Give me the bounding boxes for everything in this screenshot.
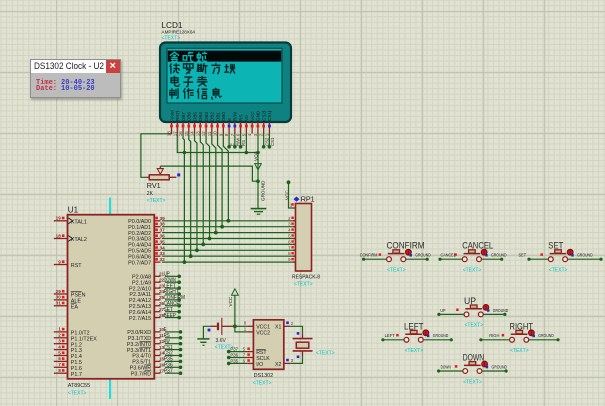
wire/net stub CS1 xyxy=(165,349,180,351)
SET cap xyxy=(550,253,567,255)
LCD screen area xyxy=(167,48,282,103)
svg-text:CS2: CS2 xyxy=(261,112,266,121)
svg-text:15: 15 xyxy=(184,131,189,137)
LEFT actuator xyxy=(423,330,429,336)
svg-text:11: 11 xyxy=(207,131,212,136)
rtc chip DS1302 body xyxy=(253,320,283,370)
svg-text:RP1: RP1 xyxy=(301,195,315,204)
ground symbol (LCD) xyxy=(251,208,267,210)
wire/net stub E xyxy=(165,331,180,333)
svg-text:LEFT: LEFT xyxy=(385,333,395,339)
U1 pin 8 (P1.7) xyxy=(54,372,68,374)
power flag VCC (RP1) xyxy=(287,180,291,184)
svg-text:CS1: CS1 xyxy=(270,137,275,146)
svg-text:2: 2 xyxy=(259,133,264,136)
U1 pin 6 (P1.5) xyxy=(54,360,68,362)
svg-text:<TEXT>: <TEXT> xyxy=(294,282,313,288)
svg-text:VCC: VCC xyxy=(253,151,258,161)
wire LCD DB2 to U1 P0.2 / RP1 xyxy=(212,133,216,233)
svg-text:EA: EA xyxy=(71,304,79,310)
wire LCD E net stub xyxy=(228,133,230,147)
wire/net stub LEFT xyxy=(165,287,179,289)
wire DOWN right to GROUND xyxy=(482,370,506,372)
svg-text:RIGH: RIGH xyxy=(489,333,500,339)
svg-text:CS2: CS2 xyxy=(264,137,269,146)
U1 pin 3 (P1.2) xyxy=(54,343,68,345)
svg-text:UP: UP xyxy=(440,308,445,314)
svg-text:R/W: R/W xyxy=(233,111,238,121)
UP actuator xyxy=(483,305,489,311)
SET actuator xyxy=(567,249,573,255)
wire LCD DB4 to U1 P0.4 / RP1 xyxy=(200,133,203,244)
wire/net stub CS2 xyxy=(165,355,180,357)
U1 pin 30 (ALE) xyxy=(54,299,68,301)
svg-text:SET: SET xyxy=(519,253,527,259)
wire/net stub RW xyxy=(165,343,180,345)
svg-text:<TEXT>: <TEXT> xyxy=(463,268,482,274)
svg-text:13: 13 xyxy=(195,131,200,137)
svg-text:RV1: RV1 xyxy=(147,181,161,190)
svg-text:2: 2 xyxy=(288,216,291,221)
svg-text:<TEXT>: <TEXT> xyxy=(405,348,424,354)
wire LCD DB3 to U1 P0.3 / RP1 xyxy=(206,133,209,239)
U1 pin 18 (XTAL2) xyxy=(54,238,68,240)
CONFIRM actuator xyxy=(406,249,412,255)
RIGHT cap xyxy=(511,333,528,335)
svg-text:RS: RS xyxy=(238,115,243,121)
junction dot DB2/P0.2 xyxy=(214,231,218,235)
U1 pin 19 (XTAL1) xyxy=(54,220,68,222)
wire LCD CS2 net stub xyxy=(263,133,265,147)
svg-text:<TEXT>: <TEXT> xyxy=(510,348,529,354)
svg-text:VCC: VCC xyxy=(250,111,255,121)
svg-text:5: 5 xyxy=(241,133,246,136)
junction dot DB5/P0.5 xyxy=(195,248,199,252)
RP1 pin 2 xyxy=(293,220,296,222)
svg-text:GROUND: GROUND xyxy=(491,253,507,259)
wire U1 P0.0/AD0 to RP1 pin 2 xyxy=(162,220,296,222)
svg-text:4: 4 xyxy=(247,133,252,136)
svg-text:DB0: DB0 xyxy=(221,112,226,121)
junction dot DB1/P0.1 xyxy=(220,225,224,229)
svg-text:DB4: DB4 xyxy=(198,112,203,121)
svg-text:<TEXT>: <TEXT> xyxy=(68,391,87,397)
svg-text:4: 4 xyxy=(288,228,291,233)
crystal X (32.768kHz) xyxy=(302,333,304,338)
svg-text:6: 6 xyxy=(288,239,291,244)
svg-text:12: 12 xyxy=(201,131,206,137)
RIGHT actuator xyxy=(529,330,535,336)
svg-text:DB1: DB1 xyxy=(215,112,220,121)
wire/net stub P37 xyxy=(165,372,180,374)
svg-text:29: 29 xyxy=(56,289,62,294)
svg-text:GROUND: GROUND xyxy=(577,253,593,259)
wire CANCEL right to GROUND xyxy=(482,258,502,260)
svg-text:I/O: I/O xyxy=(256,362,263,368)
U1 pin 5 (P1.4) xyxy=(54,355,68,357)
junction dot DB6/P0.6 xyxy=(189,254,193,258)
svg-text:14: 14 xyxy=(190,131,195,137)
svg-text:AT89C55: AT89C55 xyxy=(68,383,90,389)
svg-text:<TEXT>: <TEXT> xyxy=(549,268,568,274)
wire CANCEL left xyxy=(440,258,462,260)
wire LEFT left xyxy=(383,339,404,341)
wire U1 P0.1/AD1 to RP1 pin 3 xyxy=(162,226,296,228)
svg-text:6: 6 xyxy=(58,356,61,361)
svg-text:1: 1 xyxy=(58,327,61,332)
wire/net stub RIGHT xyxy=(165,293,179,295)
wire U1 P0.4/AD4 to RP1 pin 6 xyxy=(162,243,296,245)
DS1302 Clock - U2 popup window xyxy=(30,59,121,98)
svg-text:DB2: DB2 xyxy=(210,112,215,121)
U1 pin 1 (P1.0/T2) xyxy=(54,331,68,333)
DOWN terminal circles xyxy=(463,369,468,374)
wire U1 P0.7/AD7 to RP1 pin 9 xyxy=(162,261,296,263)
U1 pin 7 (P1.6) xyxy=(54,366,68,368)
svg-text:4: 4 xyxy=(58,344,61,349)
svg-text:GROUND: GROUND xyxy=(492,364,508,370)
svg-text:2: 2 xyxy=(291,321,294,326)
junction dot DB0/P0.0 xyxy=(226,219,230,223)
svg-text:6: 6 xyxy=(243,358,246,363)
svg-text:DOWN: DOWN xyxy=(441,364,452,370)
wire/net stub DOWN xyxy=(165,281,179,283)
svg-text:XTAL1: XTAL1 xyxy=(71,219,87,225)
DOWN actuator xyxy=(482,361,488,367)
wire LCD DB0 to U1 P0.0 / RP1 xyxy=(223,133,228,221)
svg-text:9: 9 xyxy=(288,257,291,262)
svg-text:GROUND: GROUND xyxy=(433,333,449,339)
RP1 pin 4 xyxy=(293,232,296,234)
wire CONFIRM right to GROUND xyxy=(406,258,427,260)
svg-text:P37: P37 xyxy=(230,347,238,353)
wire/net stub SET xyxy=(165,311,179,313)
wire LCD DB5 to U1 P0.5 / RP1 xyxy=(195,133,197,250)
potentiometer RV1 2K xyxy=(149,175,169,180)
svg-text:GROUND: GROUND xyxy=(415,253,431,259)
wire/net stub BEEP xyxy=(165,317,179,319)
wire battery/VCC to DS1302 VCC1 xyxy=(233,324,237,328)
wire LCD DB6 to U1 P0.6 / RP1 xyxy=(189,133,191,256)
svg-text:VCC1: VCC1 xyxy=(256,324,270,330)
RP1 pin 3 xyxy=(293,226,296,228)
DOWN cap xyxy=(464,364,481,366)
CANCEL cap xyxy=(464,253,481,255)
SET terminal circles xyxy=(548,257,553,262)
wire/net stub P35 xyxy=(165,360,180,362)
svg-text:7: 7 xyxy=(288,245,291,250)
CANCEL terminal circles xyxy=(462,257,467,262)
RP1 pin 6 xyxy=(293,243,296,245)
U1 pin 31 (EA) xyxy=(54,305,68,307)
svg-text:8: 8 xyxy=(244,321,247,326)
wire LCD V0 to rail xyxy=(245,133,247,153)
UP terminal circles xyxy=(464,312,469,317)
svg-text:LCD1: LCD1 xyxy=(162,21,183,30)
DS1302 pin 1 VCC2 xyxy=(247,331,253,333)
cyan marker above U1 xyxy=(109,198,111,215)
wire LCD DB1 to U1 P0.1 / RP1 xyxy=(218,133,223,227)
CANCEL actuator xyxy=(481,249,487,255)
svg-text:CONFIRM: CONFIRM xyxy=(360,253,378,259)
svg-text:<TEXT>: <TEXT> xyxy=(316,350,335,356)
wire LCD RST down with jog / V0 contrast rail xyxy=(177,133,258,153)
CONFIRM terminal circles xyxy=(387,257,392,262)
svg-text:RST: RST xyxy=(71,263,82,269)
RP1 pin 5 xyxy=(293,238,296,240)
RP1 pin 1 xyxy=(293,207,296,209)
wire LCD DB7 to U1 P0.7 / RP1 xyxy=(183,133,184,262)
DS1302 pin 2 X1 wire to crystal xyxy=(284,325,290,327)
wire/net stub UP xyxy=(165,275,179,277)
svg-text:5: 5 xyxy=(58,350,61,355)
svg-text:16: 16 xyxy=(178,131,183,137)
svg-text:CANCEL: CANCEL xyxy=(462,241,493,251)
wire U1 P0.6/AD6 to RP1 pin 8 xyxy=(162,255,296,257)
close button xyxy=(106,60,121,73)
wire/net stub CANCEL xyxy=(165,305,179,307)
svg-text:5: 5 xyxy=(243,347,246,352)
svg-text:2: 2 xyxy=(58,333,61,338)
svg-text:P2.7/A15: P2.7/A15 xyxy=(129,316,151,322)
wire RIGHT right to GROUND xyxy=(529,339,558,341)
svg-text:9: 9 xyxy=(218,133,223,136)
svg-text:V0: V0 xyxy=(244,115,249,121)
svg-text:3.6V: 3.6V xyxy=(216,338,227,344)
svg-text:E: E xyxy=(227,118,232,121)
svg-text:1: 1 xyxy=(244,326,247,331)
svg-text:19: 19 xyxy=(56,216,62,221)
svg-text:P1.7: P1.7 xyxy=(71,372,82,378)
U1 pin 9 (RST) xyxy=(54,264,68,266)
wire RIGHT left xyxy=(481,339,509,341)
wire UP left xyxy=(439,313,464,315)
svg-text:3: 3 xyxy=(288,222,291,227)
svg-text:-Vout: -Vout xyxy=(169,110,174,121)
wire SET left xyxy=(529,258,548,260)
svg-text:<TEXT>: <TEXT> xyxy=(162,36,181,42)
wire U1 P0.5/AD5 to RP1 pin 7 xyxy=(162,249,296,251)
svg-text:R/W: R/W xyxy=(235,137,240,146)
svg-text:30: 30 xyxy=(56,295,62,300)
wire DOWN left xyxy=(439,370,463,372)
wire UP right to GROUND xyxy=(484,313,505,315)
svg-text:<TEXT>: <TEXT> xyxy=(253,380,272,386)
U1 pin 4 (P1.3) xyxy=(54,349,68,351)
wire LCD CS1 net stub xyxy=(268,133,270,147)
graphical LCD display LCD1 AMPIRE128X64 body xyxy=(160,43,291,123)
wire/net stub RS xyxy=(165,337,180,339)
wire/net stub P36 xyxy=(165,366,180,368)
XTAL2 pin arrow xyxy=(68,236,72,242)
U1 pin 29 (PSEN) xyxy=(54,293,68,295)
DS1302 pin 6 (I/O) with net P35 xyxy=(227,362,231,366)
svg-text:DB3: DB3 xyxy=(204,112,209,121)
wire LEFT right to GROUND xyxy=(424,339,452,341)
svg-text:GND: GND xyxy=(256,110,261,121)
svg-text:<TEXT>: <TEXT> xyxy=(387,268,406,274)
wire CONFIRM left xyxy=(364,258,387,260)
svg-text:8: 8 xyxy=(224,133,229,136)
svg-text:1: 1 xyxy=(264,133,269,136)
RP1 pin 7 xyxy=(293,249,296,251)
junction dot (wiper to GND column) xyxy=(256,179,260,183)
RP1 pin 9 xyxy=(293,261,296,263)
cyan marker below U1 xyxy=(109,380,111,400)
DS1302 pin 7 (SCLK) with net P36 xyxy=(227,356,231,360)
wire U1 P0.2/AD2 to RP1 pin 4 xyxy=(162,232,296,234)
wire U1 P0.3/AD3 to RP1 pin 5 xyxy=(162,238,296,240)
LEFT terminal circles xyxy=(404,337,409,342)
DS1302 pin 5 (RST) with net P37 xyxy=(227,350,231,354)
svg-text:3: 3 xyxy=(58,339,61,344)
svg-text:RESPACK-8: RESPACK-8 xyxy=(292,275,320,281)
svg-text:XTAL2: XTAL2 xyxy=(71,237,87,243)
wire LCD RS net stub xyxy=(240,133,242,147)
ground symbol (battery) xyxy=(203,326,210,339)
svg-text:DB5: DB5 xyxy=(192,112,197,121)
battery BT 3.6V xyxy=(211,325,218,327)
svg-text:AMPIRE128X64: AMPIRE128X64 xyxy=(162,30,196,35)
svg-text:P36: P36 xyxy=(230,353,238,359)
CONFIRM cap xyxy=(388,253,405,255)
svg-text:<TEXT>: <TEXT> xyxy=(147,198,166,204)
svg-text:P3.7/RD: P3.7/RD xyxy=(131,371,151,377)
svg-text:RST: RST xyxy=(175,112,180,121)
resistor pack RP1 RESPACK-8 body xyxy=(294,197,300,202)
svg-text:3: 3 xyxy=(291,358,294,363)
wire LCD -Vout to RV1 left terminal xyxy=(141,133,172,177)
svg-text:7: 7 xyxy=(243,353,246,358)
junction dot DB4/P0.4 xyxy=(201,243,205,247)
LCD menu highlight bar (row 1 inverted) xyxy=(168,51,281,62)
U1 pin 2 (P1.1/T2EX) xyxy=(54,337,68,339)
svg-text:8: 8 xyxy=(58,368,61,373)
junction dot DB3/P0.3 xyxy=(208,237,212,241)
DS1302 pin 3 X2 wire from crystal xyxy=(297,356,300,359)
RIGHT terminal circles xyxy=(510,337,515,342)
svg-text:6: 6 xyxy=(236,133,241,136)
junction dot DB7/P0.7 xyxy=(183,260,187,264)
DS1302 pin 8 VCC1 xyxy=(247,325,253,327)
XTAL1 pin arrow xyxy=(68,218,72,224)
svg-text:8: 8 xyxy=(288,251,291,256)
svg-text:U1: U1 xyxy=(68,205,79,214)
blue marker near RV1 xyxy=(177,173,180,176)
svg-text:P35: P35 xyxy=(230,358,238,364)
svg-text:GROUND: GROUND xyxy=(538,333,554,339)
svg-text:DB7: DB7 xyxy=(181,112,186,121)
LCD text: menu rows (Chinese glyph strokes) xyxy=(170,52,179,62)
wire SET right to GROUND xyxy=(568,258,601,260)
svg-text:<TEXT>: <TEXT> xyxy=(463,379,482,385)
UP cap xyxy=(465,308,482,310)
svg-text:GROUND: GROUND xyxy=(261,180,266,201)
svg-text:DB6: DB6 xyxy=(187,112,192,121)
svg-text:17: 17 xyxy=(172,131,177,137)
svg-text:31: 31 xyxy=(56,301,62,306)
svg-text:VCC: VCC xyxy=(228,296,233,306)
svg-text:7: 7 xyxy=(58,362,61,367)
svg-text:P0.7/AD7: P0.7/AD7 xyxy=(128,260,151,266)
svg-text:VCC2: VCC2 xyxy=(256,331,270,337)
LEFT cap xyxy=(405,333,422,335)
wire RV1 wiper to GND column xyxy=(160,166,258,181)
svg-text:X2: X2 xyxy=(275,362,281,368)
svg-text:18: 18 xyxy=(56,233,62,238)
svg-text:7: 7 xyxy=(230,133,235,136)
svg-text:5: 5 xyxy=(288,234,291,239)
wire/net stub CONFIRM xyxy=(165,299,179,301)
svg-text:CANCEL: CANCEL xyxy=(441,253,457,259)
svg-text:RS: RS xyxy=(241,140,246,146)
wire LCD R/W net stub xyxy=(234,133,236,147)
wire LCD GND down xyxy=(257,133,259,208)
svg-text:DS1302: DS1302 xyxy=(254,373,273,379)
svg-text:CONFIRM: CONFIRM xyxy=(387,241,425,251)
svg-text:10: 10 xyxy=(213,131,218,137)
svg-text:X1: X1 xyxy=(275,324,281,330)
svg-text:<TEXT>: <TEXT> xyxy=(465,323,484,329)
svg-text:3: 3 xyxy=(253,133,258,136)
svg-text:9: 9 xyxy=(58,259,61,264)
RP1 pin 8 xyxy=(293,255,296,257)
svg-text:CS1: CS1 xyxy=(267,112,272,121)
svg-text:2K: 2K xyxy=(147,191,154,197)
svg-text:GROUND: GROUND xyxy=(493,308,509,314)
